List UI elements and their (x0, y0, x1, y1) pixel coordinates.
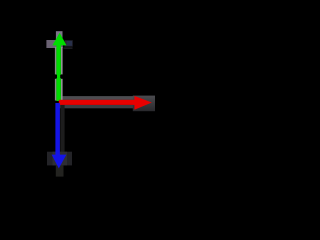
y-up halo right strip (61, 47, 63, 101)
x axis arrow shaft (red) (59, 100, 136, 105)
y-up tip label mark red tint (65, 41, 67, 45)
y-down axis arrow head (blue) (52, 155, 67, 169)
y-down halo cross bottom arm (56, 165, 64, 176)
y-down halo cross horizontal (47, 152, 72, 166)
y-down faint right strip (60, 104, 64, 152)
y-up halo cross bar (46, 40, 62, 48)
x axis arrow head (red) (134, 96, 151, 110)
y-up axis arrow shaft (green) (56, 43, 61, 101)
y-up axis tick (53, 74, 65, 78)
y-up tip label underline (64, 47, 73, 49)
x-axis halo top band (59, 96, 152, 100)
y-down axis arrow shaft (blue) (55, 103, 60, 157)
y-up halo left strip (55, 47, 57, 101)
x-axis halo head box (133, 96, 155, 112)
y-up halo column above tip (56, 31, 63, 45)
y-up tick pinch left (56, 75, 57, 78)
y-up tip label patch (65, 40, 73, 46)
y-up tip label marks (67, 41, 73, 46)
x-axis halo bottom band (59, 105, 152, 109)
y-up tick pinch right (60, 75, 61, 78)
y-down halo cross center (53, 152, 68, 166)
y-up axis arrow head (green) (53, 33, 67, 46)
